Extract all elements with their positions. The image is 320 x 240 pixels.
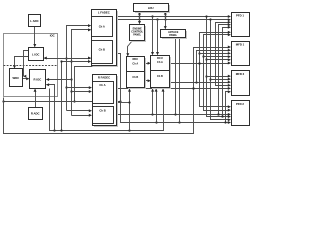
- svg-text:L FADEC: L FADEC: [98, 11, 110, 15]
- bus line V10 MFD 2 input 6: [224, 90, 231, 123]
- svg-text:Ch A: Ch A: [157, 61, 163, 64]
- svg-text:Ch B: Ch B: [99, 108, 105, 112]
- wire L ADC to L IOC: [33, 27, 36, 48]
- wire VL2 branch to R FADEC Ch A input 2: [72, 90, 93, 93]
- svg-text:Ch B: Ch B: [132, 76, 138, 79]
- WDC box: [10, 69, 23, 87]
- MFD 1 display box: [232, 42, 250, 66]
- DCU box: [151, 56, 172, 90]
- dashed partition line inside IOC: [4, 65, 58, 67]
- bus line V3 PFD1 in6 / MFD1 in3 / PFD2 in1: [198, 31, 231, 109]
- svg-text:MFD 2: MFD 2: [236, 72, 245, 76]
- svg-text:L IOC: L IOC: [32, 52, 39, 56]
- IOC container box: [4, 34, 58, 97]
- wire R FADEC Ch A output 2: [117, 101, 131, 103]
- bus line V5 from L FADEC bus to PFD 2 input 4: [205, 15, 231, 118]
- PFD 1 display box: [232, 13, 250, 37]
- svg-text:IOC: IOC: [50, 34, 55, 38]
- bus line V7 PFD 1 in3 / MFD 2 in4: [216, 21, 232, 87]
- R FADEC box: [93, 75, 119, 128]
- svg-text:L ADC: L ADC: [30, 19, 38, 23]
- L FADEC box: [92, 10, 119, 68]
- wire RDC to DCU channel A: [145, 62, 151, 65]
- svg-text:PANEL: PANEL: [169, 34, 177, 37]
- svg-text:Ch B: Ch B: [157, 75, 163, 78]
- wire bus VL2 to L FADEC Ch A input 2: [70, 28, 91, 115]
- wire DCU output 1 to MFD 1: [170, 62, 232, 65]
- svg-text:PFD 2: PFD 2: [236, 102, 244, 106]
- svg-text:DCU: DCU: [157, 56, 163, 60]
- wire L FADEC Ch A output 2 to PFD 1: [117, 18, 232, 21]
- L IOC box: [29, 48, 44, 61]
- wire branch to RDC bottom: [128, 88, 131, 130]
- PFD 2 display box: [232, 101, 250, 126]
- wire bus VL1 to L FADEC Ch A input 1: [65, 24, 91, 110]
- wire WDC to R IOC link: [23, 77, 30, 80]
- svg-text:WDC: WDC: [12, 76, 19, 80]
- wire R FADEC Ch B output to PFD 2: [117, 113, 232, 116]
- RDC box: [127, 57, 147, 90]
- bus line V9 PFD 1 input 5: [221, 26, 231, 118]
- wire L FADEC Ch A output 1 to PFD 1: [117, 15, 232, 18]
- wire L FADEC bottom to lower bus: [73, 67, 92, 103]
- wire node V0 to L FADEC Ch B input 2: [60, 60, 91, 131]
- bus line V6 tap MFD 2 input 2: [211, 78, 232, 81]
- wire bus drop to DCU channel B: [156, 20, 159, 56]
- svg-text:LDU: LDU: [148, 6, 154, 10]
- bus line V8 PFD 1 input 4: [217, 23, 231, 115]
- svg-text:R FADEC: R FADEC: [98, 76, 110, 80]
- wire VL1 branch to R FADEC Ch B input 1: [67, 109, 93, 112]
- bus line V4 tap MFD 1 input 4: [204, 55, 232, 58]
- wire LDU to ENGINE CONTROL PANEL: [138, 11, 141, 24]
- bus line V5 tap MFD 1 input 5: [207, 58, 232, 61]
- svg-text:Ch A: Ch A: [99, 25, 105, 29]
- R IOC box: [30, 70, 46, 89]
- svg-text:PANEL: PANEL: [133, 34, 141, 37]
- wire VL2 branch to R FADEC Ch B input 2: [72, 114, 93, 117]
- svg-text:PFD 1: PFD 1: [236, 14, 244, 18]
- wire DCU output 2 to MFD 2: [170, 81, 232, 84]
- svg-text:R ADC: R ADC: [31, 111, 40, 115]
- wire L IOC to L FADEC Ch B input 1: [44, 57, 92, 60]
- bus line V5 tap MFD 2 input 1: [207, 75, 232, 78]
- bus line V2 to MFD 1 input 2: [197, 49, 232, 83]
- bus line V3 tap MFD 1 input 3: [200, 52, 232, 55]
- wire L IOC to WDC right input: [23, 51, 28, 78]
- MFD 2 display box: [232, 71, 250, 96]
- svg-text:MFD 1: MFD 1: [236, 43, 245, 47]
- bus line V4 PFD1 in7 / MFD1 in4 / PFD2 in2: [202, 33, 231, 111]
- svg-text:Ch A: Ch A: [99, 83, 105, 87]
- svg-text:R IOC: R IOC: [34, 77, 42, 81]
- svg-text:RDC: RDC: [132, 57, 138, 61]
- wire R FADEC Ch A output to MFD 2: [117, 87, 232, 90]
- wire DCU bottom to R IOC bottom route: [50, 88, 165, 131]
- wire ANTI-ICE PANEL drop 1: [175, 38, 177, 115]
- wire L FADEC Ch B output to PFD 2: [117, 54, 232, 125]
- wire DCU bottom drop 2: [155, 88, 158, 122]
- ANTI-ICE PANEL box: [161, 30, 188, 40]
- ENGINE CONTROL PANEL box: [130, 25, 147, 43]
- wire VL1 branch to R FADEC Ch A input 1: [67, 86, 93, 89]
- wire L IOC to WDC top: [13, 57, 29, 69]
- wire VL2 branch to R IOC input: [46, 78, 72, 81]
- wire IOC bottom route to bus V1: [4, 46, 232, 134]
- L ADC box: [29, 15, 41, 27]
- wire IOC container bottom bus: [2, 100, 121, 102]
- wire R IOC input from bottom bus: [46, 83, 55, 130]
- bus line V6 from L FADEC bus to PFD 2 input 5: [209, 18, 231, 121]
- wire LDU to ANTI-ICE PANEL: [164, 11, 167, 29]
- wire RDC to DCU channel B: [145, 79, 151, 82]
- wire R ADC to R IOC: [34, 89, 37, 108]
- svg-text:Ch B: Ch B: [99, 48, 105, 52]
- wire bus drop to DCU channel A: [151, 17, 154, 56]
- wire ANTI-ICE PANEL drop 2: [179, 38, 181, 123]
- wire DCU bottom drop 1: [151, 88, 154, 114]
- R ADC box: [29, 108, 43, 120]
- LDU box: [134, 4, 171, 14]
- wire ENGINE CONTROL PANEL to RDC: [126, 41, 132, 57]
- svg-text:Ch A: Ch A: [132, 62, 138, 65]
